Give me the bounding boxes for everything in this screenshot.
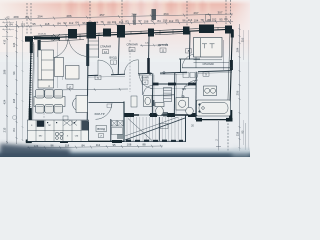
svg-text:284: 284 [235,47,239,52]
svg-text:96: 96 [82,21,86,25]
svg-text:124: 124 [12,42,16,47]
svg-text:БАНЯ: БАНЯ [141,76,148,80]
svg-text:415: 415 [3,39,7,44]
svg-text:256: 256 [235,90,239,95]
svg-text:104: 104 [194,18,199,22]
svg-text:СПАЛНЯ: СПАЛНЯ [203,62,214,66]
svg-text:310: 310 [241,37,245,42]
svg-text:118: 118 [45,22,50,26]
svg-text:СПАЛНЯ: СПАЛНЯ [127,43,138,47]
svg-text:102: 102 [212,18,217,22]
svg-text:СПАЛНЯ: СПАЛНЯ [100,45,111,49]
svg-text:ДЕТСКА: ДЕТСКА [158,43,168,47]
svg-text:112: 112 [96,143,101,147]
svg-text:114: 114 [188,18,193,22]
svg-text:118: 118 [12,98,16,103]
svg-text:95: 95 [112,143,116,147]
svg-text:307: 307 [217,11,222,15]
svg-text:289: 289 [13,15,18,19]
svg-text:297: 297 [193,11,198,15]
svg-text:84: 84 [81,143,85,147]
svg-text:64: 64 [75,21,79,25]
svg-text:286: 286 [66,14,71,18]
svg-text:118: 118 [235,131,239,136]
svg-text:101: 101 [112,20,117,24]
svg-text:83: 83 [125,20,129,24]
svg-text:95: 95 [32,22,36,26]
svg-text:WC: WC [182,87,186,91]
svg-text:112: 112 [69,21,74,25]
svg-text:121: 121 [21,22,26,26]
svg-text:210/140: 210/140 [38,34,47,36]
svg-text:424: 424 [3,99,7,104]
svg-text:112: 112 [169,19,174,23]
svg-text:84: 84 [57,22,61,26]
svg-text:388: 388 [3,69,7,74]
svg-text:ПС: ПС [48,125,52,127]
svg-text:108: 108 [127,143,132,147]
svg-text:76: 76 [100,20,104,24]
svg-text:96: 96 [12,71,16,75]
svg-text:215: 215 [3,127,7,132]
svg-text:ВХОД: ВХОД [97,127,105,131]
svg-text:118: 118 [65,144,70,148]
svg-text:88: 88 [142,143,146,147]
svg-text:78: 78 [200,18,204,22]
svg-text:264: 264 [163,12,168,16]
svg-text:84: 84 [157,19,161,23]
svg-text:116: 116 [119,20,124,24]
svg-text:89: 89 [175,18,179,22]
svg-text:106: 106 [163,19,168,23]
svg-text:95: 95 [219,18,223,22]
svg-text:294: 294 [37,15,42,19]
svg-text:86: 86 [224,17,228,21]
svg-text:92: 92 [63,21,67,25]
svg-text:257: 257 [99,13,104,17]
svg-text:▲: ▲ [48,85,50,88]
svg-text:84: 84 [9,23,13,27]
svg-text:ВХОД: ВХОД [110,56,117,60]
svg-text:84: 84 [25,15,29,19]
svg-text:88: 88 [107,20,111,24]
svg-text:84: 84 [12,128,16,132]
svg-text:ХОЛ-ТР: ХОЛ-ТР [94,112,104,116]
svg-text:СМ: СМ [75,136,79,138]
svg-text:97: 97 [138,19,142,23]
svg-text:108: 108 [144,19,149,23]
svg-text:96: 96 [182,19,186,23]
svg-text:МО: МО [39,136,43,138]
